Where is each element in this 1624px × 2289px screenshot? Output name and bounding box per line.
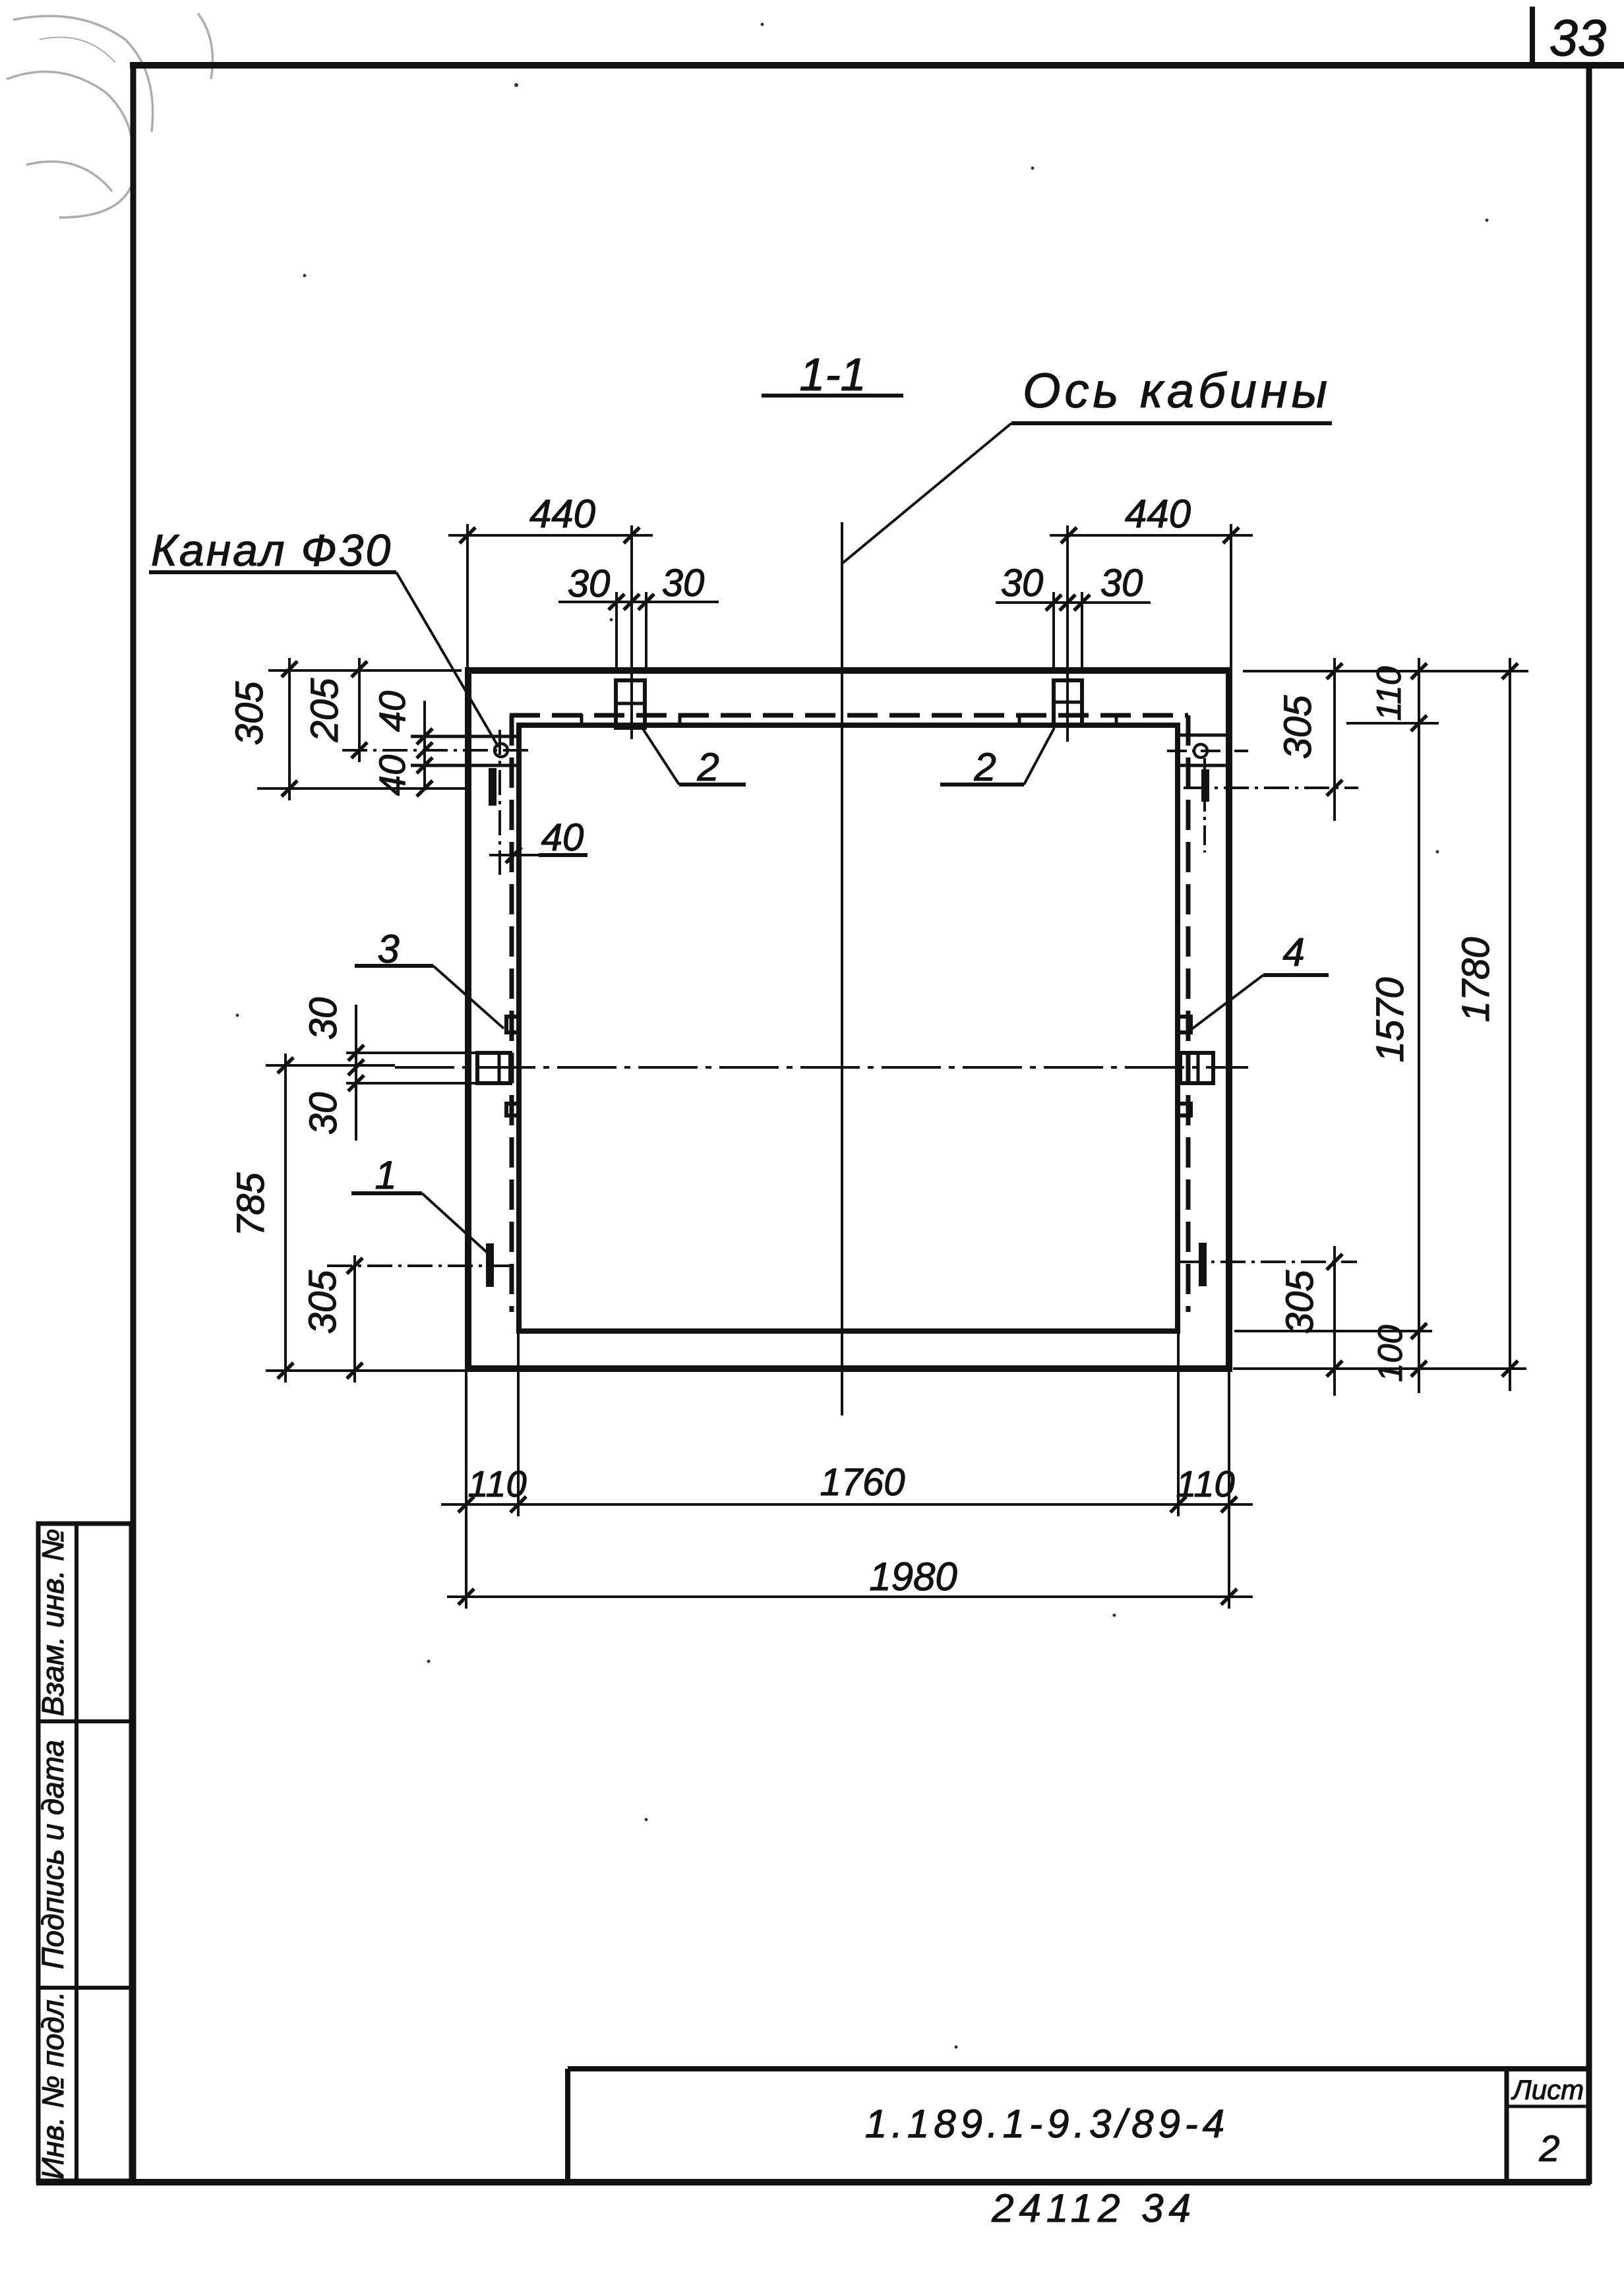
svg-text:1.189.1-9.3/89-4: 1.189.1-9.3/89-4	[865, 2102, 1229, 2146]
dimension 30 30 left: extension lines	[617, 592, 646, 670]
dimension 30 30 left: line	[558, 601, 719, 603]
item label 2 left: underline	[679, 783, 746, 787]
svg-text:305: 305	[228, 681, 271, 746]
svg-text:785: 785	[229, 1172, 272, 1237]
dimension 1780: line	[1509, 658, 1511, 1391]
svg-text:4: 4	[1282, 930, 1304, 974]
svg-text:305: 305	[1277, 695, 1319, 759]
title block left edge	[565, 2069, 570, 2182]
item label 4: leader	[1191, 975, 1263, 1030]
svg-text:30: 30	[662, 562, 705, 605]
svg-text:2: 2	[1538, 2127, 1559, 2169]
ticks on 110-1760-110	[458, 1497, 1237, 1512]
svg-text:100: 100	[1371, 1325, 1410, 1382]
anchor bolt top-left center line	[630, 525, 633, 739]
outer wall top extension up left	[466, 524, 469, 670]
title block top edge	[568, 2066, 1589, 2071]
cabin axis label underline	[1011, 421, 1332, 425]
outer bottom edge extension right	[1233, 1367, 1526, 1370]
svg-text:305: 305	[1278, 1270, 1321, 1334]
inner top edge extension right	[1346, 722, 1439, 725]
dimension 30 30 mid-left: ticks	[348, 1045, 364, 1091]
svg-text:1760: 1760	[820, 1461, 905, 1504]
svg-text:30: 30	[302, 997, 345, 1040]
left top extension line at outer edge level	[268, 669, 462, 672]
shaft outer wall rectangle	[468, 670, 1229, 1369]
dimension 30 30 right: ticks	[1046, 595, 1090, 610]
channel left vertical center line	[498, 730, 501, 875]
svg-text:2: 2	[973, 745, 996, 789]
scan smudge top-left corner	[7, 13, 213, 218]
svg-text:40: 40	[541, 816, 584, 859]
frame left border	[131, 63, 136, 2184]
label 40 wall offset: underline	[539, 853, 587, 857]
ticks on 110-1570-100 line	[1411, 663, 1427, 1377]
cabin axis leader	[843, 423, 1011, 563]
svg-text:205: 205	[303, 678, 346, 743]
dimension 205 top-left: line	[358, 658, 361, 762]
svg-text:30: 30	[1100, 562, 1143, 605]
horizontal center line of shaft	[395, 1066, 1248, 1069]
dimension 30 30 left: ticks	[609, 594, 654, 610]
scan speckle dots	[236, 23, 1489, 2049]
mid-left anchor bolt vertical line	[498, 1054, 501, 1082]
mid-left bolt top extension line	[346, 1052, 477, 1054]
channel hole Ф30 left	[495, 744, 508, 757]
dimension 30 30 right: line	[996, 601, 1151, 604]
svg-text:1-1: 1-1	[799, 349, 866, 400]
section title underline	[762, 394, 903, 398]
frame top border	[130, 62, 1624, 69]
bottom extension: outer left wall	[465, 1369, 467, 1609]
svg-text:Взам. инв. №: Взам. инв. №	[36, 1529, 70, 1717]
dimension 305 top-right: ticks	[1327, 663, 1342, 796]
mounting plate jog right bolt right	[1115, 714, 1118, 725]
svg-text:40: 40	[371, 691, 413, 732]
svg-text:1: 1	[375, 1153, 396, 1197]
inner bottom edge extension right	[1234, 1330, 1432, 1332]
inner dashed line left	[510, 715, 514, 1312]
dimension 440 left: line	[448, 534, 653, 537]
svg-text:110: 110	[467, 1463, 526, 1504]
dimension 305 top-left: line	[288, 658, 291, 800]
dimension 785: line	[284, 1054, 287, 1382]
anchor bolt top-right body	[1054, 680, 1082, 725]
dimension 30 30 right: extension lines	[1054, 592, 1082, 670]
svg-text:30: 30	[302, 1092, 345, 1135]
svg-text:40: 40	[371, 755, 413, 796]
svg-text:440: 440	[529, 492, 595, 536]
top edge extension right	[1243, 670, 1528, 672]
dimension 305 top-left: ticks	[282, 661, 297, 796]
item label 2 right: leader	[1024, 728, 1054, 785]
frame bottom border	[36, 2179, 1590, 2185]
channel block left wall lines	[411, 736, 519, 765]
svg-text:1570: 1570	[1369, 977, 1412, 1062]
mid-left anchor bolt body	[477, 1053, 510, 1083]
bottom extension: inner right wall	[1177, 1331, 1180, 1516]
ticks on 1980	[458, 1589, 1237, 1605]
guide plate tab right upper	[1178, 1017, 1191, 1032]
svg-text:1780: 1780	[1455, 937, 1497, 1022]
svg-text:2: 2	[696, 745, 719, 789]
right dash-dot extension at 305 level	[1184, 787, 1358, 789]
svg-text:33: 33	[1549, 9, 1607, 67]
left stamp row divider 1	[38, 1719, 131, 1723]
Канал Ф30 label underline	[149, 570, 396, 574]
mounting plate jog left bolt left	[580, 714, 584, 725]
mid-left bolt bottom extension line	[346, 1082, 477, 1085]
item label 3: underline	[355, 964, 433, 968]
svg-text:Лист: Лист	[1511, 2074, 1584, 2105]
lower-right weld bar	[1199, 1243, 1207, 1286]
dimension 305 top-right: line	[1333, 658, 1336, 821]
item label 1: leader	[422, 1193, 489, 1254]
lower-left dash-dot line	[327, 1264, 521, 1267]
cabin axis center line	[841, 522, 843, 1415]
item label 3: leader	[433, 966, 504, 1028]
dimension 440 right: line	[1050, 534, 1253, 537]
inner dashed line top	[510, 713, 1188, 718]
label 40 wall offset: tick	[506, 847, 522, 863]
svg-text:30: 30	[1001, 562, 1044, 605]
label 40 wall offset: leader line	[489, 854, 539, 856]
dimension 40 40 top-left: ticks	[417, 728, 433, 796]
channel right vertical center line	[1203, 758, 1206, 852]
bottom extension: inner left wall	[517, 1331, 520, 1516]
inner dashed line right	[1186, 715, 1191, 1312]
Канал Ф30 leader	[396, 572, 498, 747]
svg-text:Канал Ф30: Канал Ф30	[151, 525, 392, 576]
svg-text:305: 305	[301, 1270, 344, 1334]
outer wall top extension up right	[1230, 524, 1232, 670]
dimension line 1980	[447, 1595, 1253, 1598]
channel left weld bar	[489, 768, 496, 806]
dimension 785: ticks	[278, 1057, 293, 1379]
channel block right wall lines	[1180, 735, 1229, 765]
anchor bolt top-right cross line	[1054, 701, 1082, 704]
page number tick mark top-right	[1530, 7, 1535, 65]
anchor bolt top-left cross line	[616, 702, 645, 705]
dimension 305 bottom-left: ticks	[347, 1258, 363, 1379]
anchor bolt top-left body	[616, 680, 645, 728]
dimension 305 bottom-right: ticks	[1327, 1254, 1342, 1377]
mounting plate jog left bolt right	[678, 714, 682, 725]
item label 2 right: underline	[940, 783, 1024, 787]
guide plate tab right lower	[1178, 1104, 1191, 1115]
channel right weld bar	[1201, 769, 1209, 802]
left stamp column outer box	[38, 1524, 131, 2181]
left extension line at 305 bottom	[257, 787, 466, 790]
dimension line 110-1760-110	[441, 1503, 1253, 1506]
title block list-cell horizontal divider	[1507, 2105, 1589, 2108]
svg-text:Инв. № подл.: Инв. № подл.	[36, 1991, 70, 2179]
mid-right anchor bolt body	[1180, 1053, 1213, 1083]
svg-text:440: 440	[1125, 492, 1191, 536]
lower-left weld bar	[486, 1243, 494, 1287]
dimension line right vertical 110-1570-100	[1418, 658, 1420, 1393]
dimension 440 right: ticks	[1061, 527, 1239, 543]
channel right horizontal center line	[1167, 750, 1248, 752]
mid-left extension at center line level	[266, 1064, 395, 1067]
svg-text:110: 110	[1176, 1463, 1234, 1504]
bottom extension: outer right wall	[1228, 1369, 1230, 1609]
dimension 30 30 mid-left: line	[355, 1005, 357, 1141]
dimension 40 40 top-left: line	[423, 701, 426, 790]
item label 1: underline	[351, 1191, 422, 1195]
channel left horizontal center line	[342, 749, 528, 752]
lower-right dash-dot line	[1180, 1261, 1357, 1263]
mid-right anchor bolt vertical line	[1197, 1054, 1200, 1082]
title block list-cell divider	[1505, 2069, 1509, 2182]
item label 4: underline	[1263, 973, 1329, 977]
svg-text:1980: 1980	[869, 1555, 957, 1599]
bottom edge extension left	[266, 1369, 468, 1372]
dimension 305 bottom-left: line	[353, 1255, 356, 1382]
svg-text:24112 34: 24112 34	[991, 2186, 1196, 2230]
svg-text:Ось кабины: Ось кабины	[1023, 363, 1331, 418]
item label 2 left: leader	[642, 728, 679, 785]
dimension 440 left: ticks	[460, 527, 640, 543]
svg-text:110: 110	[1370, 666, 1408, 721]
dimension 205 top-left: ticks	[351, 661, 367, 758]
dimension 305 bottom-right: line	[1333, 1246, 1336, 1396]
guide plate tab left upper	[506, 1017, 519, 1032]
left stamp row divider 2	[38, 1986, 131, 1990]
svg-text:Подпись и дата: Подпись и дата	[36, 1740, 70, 1969]
left stamp column divider	[75, 1524, 78, 2181]
channel hole Ф30 right	[1194, 744, 1207, 758]
frame right border	[1586, 65, 1592, 2184]
shaft inner wall rectangle	[519, 725, 1178, 1331]
guide plate tab left lower	[506, 1104, 519, 1115]
svg-text:30: 30	[568, 562, 611, 605]
anchor bolt top-right center line	[1066, 525, 1069, 742]
dimension 1780: ticks	[1502, 663, 1518, 1377]
mounting plate jog right bolt left	[1018, 714, 1021, 725]
